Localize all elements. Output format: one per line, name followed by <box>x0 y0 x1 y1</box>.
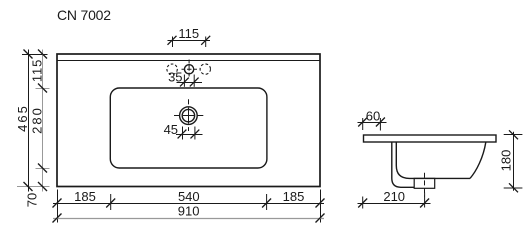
svg-text:70: 70 <box>24 193 39 207</box>
drain hole outer circle <box>180 107 198 125</box>
svg-text:180: 180 <box>499 150 514 172</box>
svg-text:465: 465 <box>15 104 30 132</box>
bottom extension verticals <box>57 190 59 223</box>
faucet hole centerlines <box>188 60 190 77</box>
drain hole inner circle <box>182 109 194 121</box>
bowl inner wall and bottom <box>396 142 470 178</box>
svg-text:910: 910 <box>178 204 200 219</box>
drain centerline dashed <box>424 173 426 197</box>
drain centerlines <box>188 99 190 131</box>
svg-text:35: 35 <box>168 70 182 85</box>
basin bowl rounded rectangle <box>110 88 267 168</box>
svg-text:115: 115 <box>178 26 199 41</box>
left extension line basin top (gray) <box>36 88 50 90</box>
svg-text:210: 210 <box>383 189 405 204</box>
bowl right wall curve <box>470 142 486 178</box>
bowl outer left wall <box>392 142 414 187</box>
svg-text:540: 540 <box>178 189 200 204</box>
dimension 210 (side depth) <box>358 189 431 209</box>
dimension chain 115/280/70 (left inner, gray line) <box>24 50 47 208</box>
side view counter slab <box>364 135 497 142</box>
right hole circle <box>200 64 210 74</box>
left extension line top <box>22 54 48 56</box>
dimension 60 (side overhang) <box>358 108 387 130</box>
dimension 465 (overall depth, left outer) <box>15 50 33 192</box>
svg-text:45: 45 <box>164 122 178 137</box>
svg-text:60: 60 <box>366 108 380 123</box>
dimension chain 185/540/185 (bottom) <box>53 189 325 208</box>
svg-text:CN 7002: CN 7002 <box>57 7 111 23</box>
optional hole dashed circle (left) <box>167 64 177 74</box>
left extension line basin bottom (gray) <box>36 168 50 170</box>
dimension 45 (drain diameter) <box>164 122 203 140</box>
svg-text:185: 185 <box>283 189 305 204</box>
dimension 115 (top, hole spacing) <box>168 26 211 47</box>
dimension 910 (bottom overall, gray line) <box>53 204 325 223</box>
basin outer rectangle (top view) <box>57 54 320 187</box>
svg-text:115: 115 <box>29 59 44 82</box>
dimension 35 (faucet hole diameter) <box>168 70 202 87</box>
svg-text:280: 280 <box>29 106 44 134</box>
svg-text:185: 185 <box>74 189 96 204</box>
faucet hole center circle <box>185 65 194 74</box>
dimension 180 (side height) <box>499 130 523 192</box>
left extension line bottom <box>17 186 50 188</box>
rim inner line <box>57 60 320 62</box>
drain stub <box>414 178 435 188</box>
